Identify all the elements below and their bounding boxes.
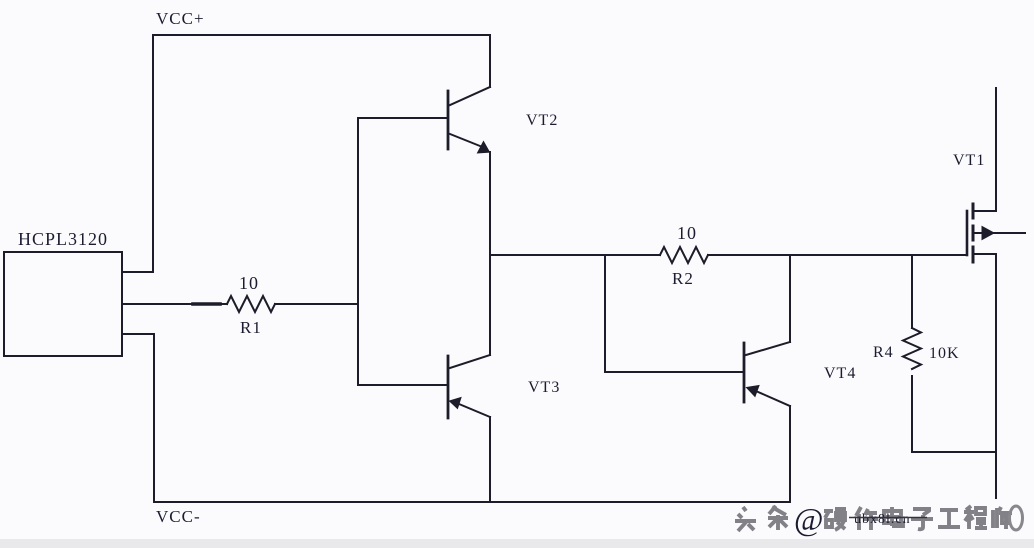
wire MOSFET body lead xyxy=(973,232,1025,234)
svg-text:10: 10 xyxy=(239,273,259,293)
svg-text:VT1: VT1 xyxy=(953,152,985,169)
glyph 头 xyxy=(735,507,756,531)
svg-text:10K: 10K xyxy=(929,345,960,362)
svg-text:R2: R2 xyxy=(672,269,694,288)
svg-text:R1: R1 xyxy=(240,318,262,337)
wire R4 bottom lead xyxy=(911,376,913,452)
MOSFET VT1 channel bar top xyxy=(972,204,975,218)
bottom gray strip xyxy=(0,539,1034,548)
wire R1 to base node vertical xyxy=(275,303,358,305)
glyph 条 xyxy=(768,506,788,530)
wire R4 top lead from main rail xyxy=(911,255,913,328)
wire VT4 collector vertical to main rail xyxy=(789,255,791,342)
MOSFET VT1 gate bar xyxy=(966,211,969,255)
MOSFET VT1 channel bar bottom xyxy=(972,247,975,262)
svg-text:@: @ xyxy=(794,501,824,537)
wire left vertical to VCC- rail xyxy=(153,334,155,502)
transistor VT4 emitter diagonal xyxy=(757,392,790,407)
IC U1 HCPL3120 box xyxy=(4,252,122,356)
wire MOSFET source vertical xyxy=(995,254,997,498)
svg-text:VT3: VT3 xyxy=(528,379,560,396)
wire VT2 base wire xyxy=(358,117,448,119)
wire VT4 base drop from main rail xyxy=(604,255,606,372)
MOSFET VT1 body arrow xyxy=(982,227,994,240)
wire main output rail xyxy=(490,254,660,256)
resistor R1 zigzag xyxy=(227,296,275,312)
MOSFET VT1 channel bar middle xyxy=(972,226,975,240)
resistor R2 zigzag xyxy=(660,247,708,263)
wire VT2 emitter / VT3 collector vertical xyxy=(489,152,491,355)
wire MOSFET drain stub xyxy=(973,210,996,212)
wire VCC- bottom rail xyxy=(154,501,790,503)
wire left vertical from VCC+ to HCPL pin xyxy=(152,35,154,272)
wire thick overlap segment on R1 wire xyxy=(193,302,220,306)
transistor VT4 emitter arrowhead xyxy=(747,386,760,397)
svg-text:VT2: VT2 xyxy=(526,112,558,129)
transistor VT2 collector diagonal xyxy=(450,87,490,105)
watermark strikethrough line xyxy=(849,517,927,519)
svg-text:ubx8l.cn: ubx8l.cn xyxy=(854,512,911,527)
wire HCPL middle pin to R1 xyxy=(122,303,227,305)
glyph 电 xyxy=(884,507,903,526)
svg-text:HCPL3120: HCPL3120 xyxy=(18,229,108,249)
wire HCPL bottom pin stub xyxy=(122,333,154,335)
transistor Q VT4 base bar xyxy=(743,343,746,402)
transistor VT3 emitter arrowhead xyxy=(450,398,462,409)
glyph 子 xyxy=(911,509,933,529)
transistor VT2 emitter diagonal xyxy=(450,134,480,146)
wire VT3 emitter vertical to VCC- xyxy=(489,417,491,502)
svg-text:10: 10 xyxy=(677,223,697,243)
svg-text:VCC+: VCC+ xyxy=(156,9,205,28)
transistor VT3 emitter diagonal xyxy=(459,404,490,417)
transistor VT4 collector diagonal xyxy=(746,342,790,355)
wire MOSFET source stub xyxy=(973,253,996,255)
glyph 硬 xyxy=(824,509,846,530)
wire VT2 collector vertical to VCC+ xyxy=(489,35,491,87)
wire base-node vertical (VT2 base to VT3 base) xyxy=(357,118,359,385)
wire VT4 base horizontal xyxy=(605,371,744,373)
glyph 师 xyxy=(993,507,1012,529)
wire VT4 emitter vertical to VCC- xyxy=(789,406,791,502)
transistor Q VT2 base bar xyxy=(447,91,450,149)
transistor Q VT3 base bar xyxy=(447,356,450,418)
glyph 工 xyxy=(938,510,960,527)
svg-text:VCC-: VCC- xyxy=(156,507,201,526)
wire HCPL top pin stub xyxy=(122,271,153,273)
wire R2 to MOSFET gate xyxy=(708,254,967,256)
transistor VT2 emitter arrowhead xyxy=(478,142,490,154)
wire VCC+ top rail xyxy=(153,34,490,36)
resistor R4 vertical zigzag xyxy=(903,328,921,369)
glyph 程 xyxy=(964,506,987,529)
wire MOSFET drain vertical xyxy=(995,88,997,211)
transistor VT3 collector diagonal xyxy=(450,355,490,368)
glyph 件 xyxy=(856,507,878,530)
wire VT3 base wire xyxy=(358,384,448,386)
svg-text:VT4: VT4 xyxy=(824,365,856,382)
svg-text:R4: R4 xyxy=(873,344,894,361)
wire R4 bottom to source vertical xyxy=(912,451,996,453)
watermark 头条@硬件电子工程师0 hand-drawn gray glyphs xyxy=(735,506,1012,531)
